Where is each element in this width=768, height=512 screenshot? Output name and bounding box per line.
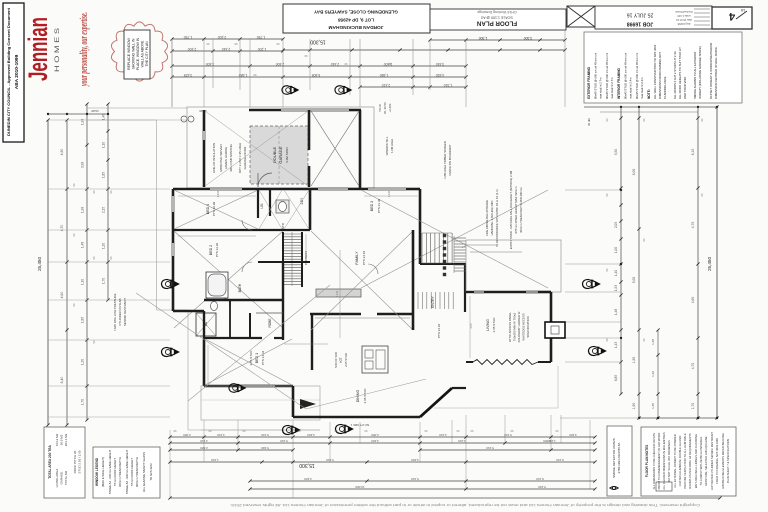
right small labels xyxy=(587,118,704,342)
top dim row right of strip xyxy=(428,36,566,42)
svg-text:INTERIOR FRAMING: INTERIOR FRAMING xyxy=(617,67,621,99)
porch outline above living xyxy=(466,240,561,292)
entry walls xyxy=(413,230,466,330)
svg-text:your personality, our expertis: your personality, our expertise. xyxy=(79,12,90,87)
svg-text:1,70: 1,70 xyxy=(102,278,106,284)
bottom 90 labels xyxy=(173,429,558,433)
svg-text:3,400: 3,400 xyxy=(307,433,315,437)
svg-text:S/D F/F W/D: S/D F/F W/D xyxy=(334,352,338,368)
svg-text:1,300: 1,300 xyxy=(479,36,488,40)
svg-text:1.8M HIGH TIMBER SCREEN: 1.8M HIGH TIMBER SCREEN xyxy=(443,141,447,179)
svg-text:max stud ht 2.7m: max stud ht 2.7m xyxy=(599,77,603,99)
consent stamp box xyxy=(3,3,24,142)
garage X over slab xyxy=(205,111,308,186)
bottom eye symbols xyxy=(282,425,299,434)
svg-text:SEISMIC RESTRAINT: SEISMIC RESTRAINT xyxy=(123,298,127,326)
svg-text:FAMILY: FAMILY xyxy=(355,251,359,265)
svg-text:1,98: 1,98 xyxy=(81,207,85,213)
crossed logo box xyxy=(567,6,595,27)
svg-text:dwg 16998: dwg 16998 xyxy=(677,22,690,26)
eye symbols top xyxy=(282,86,298,95)
svg-text:LOT 9, DP 42958: LOT 9, DP 42958 xyxy=(338,18,374,23)
top dim connectors xyxy=(172,39,466,107)
svg-text:4,310: 4,310 xyxy=(439,433,447,437)
svg-text:1,310: 1,310 xyxy=(211,458,219,462)
svg-text:T.O.W: T.O.W xyxy=(378,104,382,112)
garage side notes xyxy=(212,143,247,173)
svg-text:SCALE 1:100 @ A3: SCALE 1:100 @ A3 xyxy=(481,16,513,20)
svg-text:4,70: 4,70 xyxy=(691,222,695,229)
right dim col 3 xyxy=(651,328,660,419)
kitchen bench xyxy=(316,289,361,297)
svg-text:90x45 STUD @ 600 crs w/ 45mm: 90x45 STUD @ 600 crs w/ 45mm crs xyxy=(594,52,598,99)
left dim col 4 xyxy=(102,102,110,301)
svg-text:975mm RISER HEIGHT MAX 190mm: 975mm RISER HEIGHT MAX 190mm xyxy=(514,186,518,234)
svg-text:WINDOW LEGEND: WINDOW LEGEND xyxy=(95,457,99,486)
svg-text:H O M E S: H O M E S xyxy=(54,27,61,72)
svg-text:1,200: 1,200 xyxy=(258,47,267,51)
svg-text:1,750: 1,750 xyxy=(257,35,266,39)
svg-text:1,680: 1,680 xyxy=(380,73,389,77)
svg-text:JOINERY (INCLUDING GARAGE SPA: JOINERY (INCLUDING GARAGE SPACE) xyxy=(698,46,702,99)
svg-text:DOUBLE: DOUBLE xyxy=(272,146,277,163)
svg-text:TOTAL AREA 200 TBA: TOTAL AREA 200 TBA xyxy=(48,445,52,479)
main top wall xyxy=(173,188,420,190)
svg-text:1,20: 1,20 xyxy=(102,243,106,249)
svg-text:date 25.07.16: date 25.07.16 xyxy=(676,18,692,22)
svg-text:ROBE: ROBE xyxy=(268,318,272,327)
svg-text:6,10: 6,10 xyxy=(691,149,695,156)
bed2 X xyxy=(174,231,283,328)
garage bay X bracing xyxy=(311,111,359,186)
svg-text:3,400: 3,400 xyxy=(304,477,312,481)
svg-text:90x45 STUD @ 600 crs w/ 45mm: 90x45 STUD @ 600 crs w/ 45mm crs xyxy=(605,52,609,99)
svg-text:ALL FIGURED DIMENSIONS IN MILL: ALL FIGURED DIMENSIONS IN MILLIMETRES xyxy=(662,432,666,490)
svg-text:ABA 2010-1099: ABA 2010-1099 xyxy=(14,54,20,89)
svg-text:PRIOR TO COMMENCEMENT OF ANY W: PRIOR TO COMMENCEMENT OF ANY WORK xyxy=(657,432,661,489)
svg-text:3,400: 3,400 xyxy=(569,433,577,437)
left dim col 2 xyxy=(60,118,69,426)
svg-text:4,310: 4,310 xyxy=(217,433,225,437)
fine print bottom xyxy=(230,503,700,507)
bed4 labels xyxy=(206,201,216,216)
eave line left xyxy=(88,108,320,430)
svg-text:JAMES HARDIE: JAMES HARDIE xyxy=(224,147,228,169)
svg-text:600mm TREAD DEPTH: 600mm TREAD DEPTH xyxy=(118,457,122,487)
svg-text:15,300: 15,300 xyxy=(310,39,326,45)
left dim stubs xyxy=(48,120,187,417)
garage left wall xyxy=(203,110,205,187)
svg-text:TO NZS 4223: TO NZS 4223 xyxy=(149,463,153,481)
robe xyxy=(250,262,283,340)
svg-text:1,40: 1,40 xyxy=(651,371,655,377)
svg-text:RL 30.50: RL 30.50 xyxy=(383,102,387,114)
svg-text:scale 1:100: scale 1:100 xyxy=(677,14,691,18)
svg-text:15,300: 15,300 xyxy=(299,462,315,468)
stairs xyxy=(283,232,308,287)
bed4 bed2 divider xyxy=(173,229,310,231)
left small 90 labels xyxy=(72,183,113,343)
TOW note xyxy=(378,102,392,114)
bed4 X xyxy=(174,190,258,229)
svg-text:5,310: 5,310 xyxy=(335,290,339,297)
svg-text:CLADDING FACE: CLADDING FACE xyxy=(663,76,667,99)
svg-text:1,70: 1,70 xyxy=(81,399,85,405)
svg-text:16: 16 xyxy=(740,8,745,13)
svg-text:5,940: 5,940 xyxy=(261,446,269,450)
svg-text:MOISTURE, SELECTED GIB AQUALIN: MOISTURE, SELECTED GIB AQUALINE xyxy=(704,436,708,486)
bed1 walls xyxy=(204,311,293,387)
svg-text:6,85: 6,85 xyxy=(614,375,618,381)
svg-text:3,98: 3,98 xyxy=(81,162,85,168)
svg-text:1.0M HIGH: 1.0M HIGH xyxy=(390,139,394,153)
top dim row C xyxy=(170,62,467,68)
top dim row A xyxy=(170,35,284,41)
hall cell Xs xyxy=(259,190,309,229)
svg-text:900mm TREAD DEPTH: 900mm TREAD DEPTH xyxy=(135,457,139,487)
svg-text:1,10: 1,10 xyxy=(102,142,106,148)
svg-text:OPT 2 25R X 95 HIGH: OPT 2 25R X 95 HIGH xyxy=(238,143,242,173)
svg-text:AND STAIR VOID: AND STAIR VOID xyxy=(683,77,687,99)
svg-text:CYLINDER ON SLAB: CYLINDER ON SLAB xyxy=(118,298,122,325)
svg-text:1,20: 1,20 xyxy=(81,359,85,365)
garage bay right wall xyxy=(359,110,362,188)
right strip vertical xyxy=(564,30,566,107)
right dim col outer 25450 xyxy=(707,105,719,419)
svg-text:SD 177 SMK 1: SD 177 SMK 1 xyxy=(350,423,369,427)
window legend box xyxy=(93,447,160,498)
svg-text:1,48: 1,48 xyxy=(81,242,85,248)
svg-text:6,310: 6,310 xyxy=(556,458,564,462)
svg-text:4,630: 4,630 xyxy=(436,73,445,77)
svg-text:max stud ht 2.4m: max stud ht 2.4m xyxy=(640,77,644,99)
bath room xyxy=(206,272,242,311)
svg-text:NOTE:: NOTE: xyxy=(647,89,651,99)
svg-text:REPLACE WINDOW: REPLACE WINDOW xyxy=(127,37,131,69)
svg-text:W dbl: W dbl xyxy=(587,118,591,126)
bed1 labels xyxy=(249,350,265,366)
svg-text:1,48: 1,48 xyxy=(102,114,106,120)
svg-text:25 JULY 16: 25 JULY 16 xyxy=(627,12,654,18)
bed3 X xyxy=(361,190,548,288)
svg-text:90x45 STUD @ 600 crs w/ 45mm: 90x45 STUD @ 600 crs w/ 45mm crs xyxy=(635,52,639,99)
top small labels xyxy=(91,42,391,113)
svg-text:PLAN SHEET 7 & SPECIFICATIONS: PLAN SHEET 7 & SPECIFICATIONS xyxy=(726,439,730,484)
svg-text:1,00: 1,00 xyxy=(614,247,618,253)
svg-text:4,310: 4,310 xyxy=(200,439,208,443)
hall walls xyxy=(258,189,310,230)
svg-text:750x550 MIN W 750x2: 750x550 MIN W 750x2 xyxy=(513,312,517,341)
svg-text:DIMENSION CENTRED IN WALL SPAC: DIMENSION CENTRED IN WALL SPACE xyxy=(714,47,718,99)
svg-text:1,48: 1,48 xyxy=(614,309,618,315)
svg-text:3,300: 3,300 xyxy=(524,36,533,40)
garage eave outline xyxy=(187,107,374,188)
svg-text:PYS 14.34: PYS 14.34 xyxy=(261,350,265,365)
svg-text:6,310: 6,310 xyxy=(536,477,544,481)
svg-text:1,310: 1,310 xyxy=(444,83,453,87)
living labels xyxy=(486,317,496,333)
svg-text:SMOKE DETECTOR AS/NZS: SMOKE DETECTOR AS/NZS xyxy=(612,438,616,478)
garage slab xyxy=(250,126,308,184)
svg-text:ATTIC ACCESS PANEL: ATTIC ACCESS PANEL xyxy=(508,312,512,342)
kitchen labels xyxy=(334,352,348,368)
title strip client box xyxy=(283,4,430,33)
screen note xyxy=(443,141,452,179)
svg-text:2,15: 2,15 xyxy=(102,207,106,213)
svg-text:SMOKE ALARMS TO ALL EXTERIOR: SMOKE ALARMS TO ALL EXTERIOR xyxy=(693,52,697,99)
inner dim strings xyxy=(178,190,473,383)
svg-text:3,400: 3,400 xyxy=(371,439,379,443)
dining bay walls xyxy=(293,386,466,417)
entry labels xyxy=(431,296,441,339)
svg-text:TOTAL M2: TOTAL M2 xyxy=(64,471,68,486)
svg-text:2,440: 2,440 xyxy=(331,62,340,66)
svg-text:IN ACCORDANCE WITH NZBC D1 & F: IN ACCORDANCE WITH NZBC D1 & F4 (1.1) xyxy=(495,189,499,246)
svg-text:ROOF PITCH 20: ROOF PITCH 20 xyxy=(73,450,77,473)
svg-text:OFFSET JOINERY & WINDOWS/EXTER: OFFSET JOINERY & WINDOWS/EXTERIOR xyxy=(709,43,713,99)
door arcs xyxy=(221,220,378,300)
svg-text:1,70: 1,70 xyxy=(691,403,695,410)
dining label xyxy=(356,388,367,404)
svg-text:4,70: 4,70 xyxy=(691,363,695,370)
entry stair notes xyxy=(509,170,523,249)
kitchen island xyxy=(362,346,388,373)
right dim bottom closure xyxy=(638,417,718,419)
svg-text:3,425: 3,425 xyxy=(184,73,193,77)
svg-text:SHOWING WALL IN: SHOWING WALL IN xyxy=(132,38,136,69)
svg-text:ALL WALL CONSTRUCTION TO NZS 3: ALL WALL CONSTRUCTION TO NZS 3604 xyxy=(653,44,657,99)
svg-text:JOB 16998: JOB 16998 xyxy=(627,21,654,27)
Jennian logo text xyxy=(23,17,53,81)
eye symbols plan xyxy=(161,279,178,288)
svg-text:WET AREA WALL LININGS AND FLOO: WET AREA WALL LININGS AND FLOORING xyxy=(694,434,698,488)
svg-text:LINE OF INSULATION: LINE OF INSULATION xyxy=(212,143,216,173)
left outer wall upper xyxy=(172,189,174,311)
bed3 left wall xyxy=(419,189,422,264)
svg-text:ALL EXTERNAL JOINERY TO BE POW: ALL EXTERNAL JOINERY TO BE POWDER xyxy=(673,434,677,487)
svg-text:FIXED TO FRAMING, NZS 4603:198: FIXED TO FRAMING, NZS 4603:1985 xyxy=(715,438,719,484)
svg-text:HOT WATER CYLINDER SEISMIC RES: HOT WATER CYLINDER SEISMIC RESTRAINT xyxy=(710,432,714,490)
svg-text:3786:1993 AS/3786 8A: 3786:1993 AS/3786 8A xyxy=(617,443,621,474)
svg-text:LIN: LIN xyxy=(260,203,264,209)
svg-text:STAGE A2 - 900mm EAVE HEIGHT: STAGE A2 - 900mm EAVE HEIGHT xyxy=(125,449,129,494)
svg-text:BED 4: BED 4 xyxy=(206,204,210,214)
svg-text:2.65 STUD: 2.65 STUD xyxy=(363,388,367,404)
title strip drawing box xyxy=(430,9,566,30)
floor plan notes box xyxy=(641,427,736,496)
svg-text:PYS 33.38: PYS 33.38 xyxy=(377,198,381,213)
svg-text:FOLDAWAY LADDER W: FOLDAWAY LADDER W xyxy=(517,311,521,342)
svg-text:GARAGE: GARAGE xyxy=(278,146,283,163)
svg-text:SPECIFICATION: SPECIFICATION xyxy=(526,316,530,337)
svg-text:KIT: KIT xyxy=(339,357,343,362)
svg-text:6,00: 6,00 xyxy=(632,169,636,176)
mid wall below bed2 xyxy=(173,262,310,311)
svg-text:1,90: 1,90 xyxy=(632,403,636,410)
entry stairs upper flight xyxy=(422,233,452,263)
svg-text:checked Drawn: checked Drawn xyxy=(675,10,693,14)
svg-text:+2,400: +2,400 xyxy=(388,103,392,112)
svg-text:Copyright reserved. This draw: Copyright reserved. This drawing and des… xyxy=(230,503,700,507)
svg-text:Jennian: Jennian xyxy=(23,17,53,81)
svg-text:2,05: 2,05 xyxy=(614,222,618,228)
bottom dim row 4 xyxy=(168,458,596,464)
date job box xyxy=(595,6,712,29)
svg-text:25,450: 25,450 xyxy=(37,257,42,271)
hwc notes left xyxy=(113,293,127,330)
svg-text:WINDOW SILL: WINDOW SILL xyxy=(385,136,389,155)
svg-text:EXTERIOR FRAMING: EXTERIOR FRAMING xyxy=(587,66,591,99)
svg-text:6,40: 6,40 xyxy=(60,377,64,384)
svg-text:LINE ABOVE BALUSTRADE: LINE ABOVE BALUSTRADE xyxy=(485,200,489,236)
HOMES lettering xyxy=(54,27,61,72)
svg-text:4,60: 4,60 xyxy=(691,297,695,304)
svg-text:2.65 STUD: 2.65 STUD xyxy=(344,353,348,367)
svg-text:1,53: 1,53 xyxy=(614,285,618,291)
svg-text:57mm ROOF HEIGHT: 57mm ROOF HEIGHT xyxy=(113,458,117,486)
left dim col 3 xyxy=(81,102,89,421)
bottom dim row 5 xyxy=(248,477,596,483)
svg-text:57mm ROOF HEIGHT: 57mm ROOF HEIGHT xyxy=(130,458,134,486)
svg-text:TO COMPLY WITH NZBC E3 INTERNA: TO COMPLY WITH NZBC E3 INTERNAL xyxy=(699,436,703,486)
svg-text:3,400: 3,400 xyxy=(411,458,419,462)
svg-text:203.1 M2: 203.1 M2 xyxy=(64,433,68,446)
hall labels xyxy=(260,197,304,229)
top dimension line 15300 xyxy=(281,39,566,52)
right dim col 4 xyxy=(691,107,700,420)
svg-text:6.0M SPAN: 6.0M SPAN xyxy=(285,147,289,162)
bed3 labels xyxy=(370,198,381,213)
svg-text:DIMENSIONS FROM FRAMING NOT: DIMENSIONS FROM FRAMING NOT xyxy=(658,52,662,99)
top dim row D xyxy=(170,73,467,79)
bottom dim row 3 xyxy=(168,446,596,452)
svg-text:1,98: 1,98 xyxy=(81,119,85,125)
garage top wall xyxy=(249,109,361,111)
top dim row B xyxy=(170,47,284,53)
svg-text:2,400: 2,400 xyxy=(218,35,227,39)
svg-text:PYS 10.99: PYS 10.99 xyxy=(212,201,216,216)
revision cloud xyxy=(111,22,167,81)
svg-text:WALL AS ABOVE: WALL AS ABOVE xyxy=(141,40,145,67)
svg-text:4,90: 4,90 xyxy=(60,149,64,156)
right dim stubs xyxy=(560,189,639,418)
svg-text:2,410: 2,410 xyxy=(382,83,391,87)
svg-text:LIVING AREA: LIVING AREA xyxy=(55,469,59,488)
area schedule box xyxy=(44,427,85,498)
bed1 top wall xyxy=(204,337,283,339)
svg-text:WHITEDGE ACCESS: WHITEDGE ACCESS xyxy=(522,313,526,340)
svg-text:2,050: 2,050 xyxy=(371,433,379,437)
svg-text:BATH: BATH xyxy=(238,283,242,292)
sheet number box xyxy=(712,7,752,29)
svg-text:ROOMS AS PER NZBC G4 REQUIREME: ROOMS AS PER NZBC G4 REQUIREMENTS xyxy=(688,433,692,489)
svg-text:164.2 M2: 164.2 M2 xyxy=(55,433,59,446)
note leaders xyxy=(462,245,522,252)
bed1 X xyxy=(205,339,292,385)
entry stairs corner flight xyxy=(454,236,466,273)
svg-text:HANDRAIL 1.0M HIGH MIN: HANDRAIL 1.0M HIGH MIN xyxy=(490,201,494,236)
svg-text:3,240: 3,240 xyxy=(387,190,391,197)
right dim col 2 xyxy=(632,107,641,420)
svg-text:(MAX E WALL HEIGHT): (MAX E WALL HEIGHT) xyxy=(101,457,105,487)
svg-text:STO: STO xyxy=(281,222,285,229)
svg-text:BED 2: BED 2 xyxy=(209,245,213,255)
svg-text:2,400: 2,400 xyxy=(188,47,197,51)
bottom dim connectors xyxy=(170,415,590,498)
svg-text:5,310: 5,310 xyxy=(504,433,512,437)
svg-text:2,05: 2,05 xyxy=(469,323,473,329)
entry balusters xyxy=(443,234,446,276)
svg-text:1,85: 1,85 xyxy=(102,172,106,178)
svg-text:4,310: 4,310 xyxy=(458,439,466,443)
family big X xyxy=(311,231,413,330)
svg-text:5,240: 5,240 xyxy=(538,485,546,489)
svg-text:25,450: 25,450 xyxy=(707,257,712,271)
svg-text:1,48: 1,48 xyxy=(651,339,655,345)
svg-text:ENTRY STAIR - NATURAL FALL D/A: ENTRY STAIR - NATURAL FALL D/A HEIGHT (A… xyxy=(509,170,513,249)
lintel notes xyxy=(485,189,499,246)
living walls xyxy=(466,291,551,362)
svg-text:38.9 M2: 38.9 M2 xyxy=(60,434,64,445)
kitchen wall xyxy=(310,314,414,370)
right dim col 1 xyxy=(614,107,623,396)
svg-text:GH16 Working Drawings: GH16 Working Drawings xyxy=(477,10,517,14)
left dim top closure xyxy=(47,113,109,115)
svg-text:GARAGE: GARAGE xyxy=(60,472,64,485)
svg-text:DO NOT SCALE OFF DRAWINGS: DO NOT SCALE OFF DRAWINGS xyxy=(667,440,671,482)
svg-text:ALL GLAZING SAFETY GLASS: ALL GLAZING SAFETY GLASS xyxy=(142,452,146,492)
bed2 labels xyxy=(209,242,219,257)
svg-text:THE CITY PLAN: THE CITY PLAN xyxy=(145,41,149,67)
svg-text:BED 3: BED 3 xyxy=(370,201,374,211)
svg-text:LDY: LDY xyxy=(300,197,304,204)
living bottom wall zigzag xyxy=(466,360,551,365)
svg-text:2,440: 2,440 xyxy=(222,47,231,51)
svg-text:400v OSB SPACING: 400v OSB SPACING xyxy=(229,143,233,171)
svg-text:90x45 STUD @ 600 crs w/ 45mm: 90x45 STUD @ 600 crs w/ 45mm crs xyxy=(624,52,628,99)
svg-text:5,310: 5,310 xyxy=(280,439,288,443)
svg-text:ALL DOOR HEIGHTS TO SUIT STUD: ALL DOOR HEIGHTS TO SUIT STUD HT xyxy=(678,47,682,99)
window sill note xyxy=(385,136,394,155)
svg-text:FENCE ON BOUNDARY: FENCE ON BOUNDARY xyxy=(448,144,452,175)
svg-text:max stud ht 2.7m: max stud ht 2.7m xyxy=(610,77,614,99)
svg-text:4,70: 4,70 xyxy=(60,225,64,232)
family labels xyxy=(355,250,366,265)
left dim col outer 25450 xyxy=(37,118,50,426)
svg-text:4,60: 4,60 xyxy=(60,292,64,299)
svg-text:5,310: 5,310 xyxy=(486,446,494,450)
svg-text:1,90: 1,90 xyxy=(632,357,636,364)
svg-text:ALL DIMENSIONS TO BE CHECKED O: ALL DIMENSIONS TO BE CHECKED ON SITE xyxy=(652,433,656,490)
bottom dim row 2 xyxy=(168,439,596,445)
svg-text:JORDAN BUCKINGHAM: JORDAN BUCKINGHAM xyxy=(329,24,384,30)
svg-text:1,40: 1,40 xyxy=(614,270,618,276)
svg-text:5,310: 5,310 xyxy=(326,458,334,462)
slogan script xyxy=(79,12,90,87)
entry stair lower steps xyxy=(418,292,453,309)
survey circles xyxy=(181,116,194,122)
svg-text:3,400: 3,400 xyxy=(216,190,220,197)
deck below bed1 xyxy=(201,386,320,430)
ldy fixture xyxy=(276,200,289,213)
svg-text:4: 4 xyxy=(728,10,735,22)
svg-text:10,060: 10,060 xyxy=(355,485,365,489)
svg-text:1,750: 1,750 xyxy=(184,35,193,39)
svg-text:OHW: OHW xyxy=(91,109,99,113)
svg-text:1,85: 1,85 xyxy=(81,317,85,323)
svg-text:max stud ht 2.4m: max stud ht 2.4m xyxy=(629,77,633,99)
svg-text:PYS 34.18: PYS 34.18 xyxy=(437,323,441,338)
